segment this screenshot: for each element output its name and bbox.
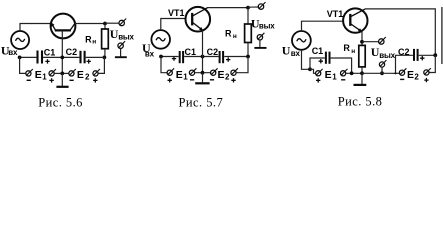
source bottom lead L (circuit 3) [302, 50, 311, 70]
plus of C2 (circuit 2) [226, 57, 230, 61]
source G3 (~) [292, 31, 311, 50]
capacitor C1 (circuit 3) [325, 52, 327, 64]
svg-text:E: E [176, 69, 183, 81]
svg-text:1: 1 [183, 73, 188, 82]
wire top rail (circuit 3) [365, 9, 435, 55]
ground bar (circuit 2) [195, 82, 209, 84]
junction dot rail left [18, 56, 22, 60]
battery terminal E2 left (circuit 2) [211, 70, 216, 75]
ground lead (circuit 3) [361, 73, 363, 84]
bottom rail segment b [43, 56, 79, 58]
svg-text:C1: C1 [312, 46, 324, 56]
bottom rail segment c (circuit 2) [224, 56, 248, 58]
battery terminal E1 left (circuit 2) [167, 70, 172, 75]
junction dot terminal row (circuit 3) [380, 71, 384, 75]
wire E1 to mid [54, 72, 68, 74]
junction dot top rail (circuit 2) [246, 6, 250, 10]
minus under E1 right (circuit 3) [341, 79, 345, 81]
svg-text:E: E [77, 69, 84, 81]
junction dot rail mid [60, 56, 64, 60]
terminal bottom lead and bar (circuit 2) [259, 40, 261, 47]
wire E2 to riser (circuit 2) [236, 57, 248, 73]
svg-text:R: R [85, 34, 92, 44]
resistor Rн lead bottom (circuit 2) [247, 43, 249, 57]
minus under E2 left (circuit 3) [400, 78, 404, 80]
svg-text:C2: C2 [207, 47, 219, 57]
wire source top to rail [19, 24, 21, 32]
svg-text:R: R [343, 43, 350, 53]
VT1 collector diagonal [193, 8, 208, 16]
plus of C1 (circuit 2) [172, 56, 176, 60]
battery terminal E2 left (circuit 1) [69, 71, 74, 76]
E branch left L-wire [20, 57, 26, 73]
right riser down to E2 (circuit 3) [429, 55, 435, 72]
wire E1 to mid (circuit 2) [195, 72, 211, 74]
svg-text:VT1: VT1 [168, 8, 185, 18]
svg-text:Рис. 5.6: Рис. 5.6 [38, 95, 83, 109]
battery terminal E1 right (circuit 3) [341, 71, 346, 76]
VT1 emitter lead down (circuit 3) [361, 32, 363, 46]
terminal output bottom (circuit 3) [379, 62, 384, 67]
minus under E1 right (circuit 2) [190, 79, 194, 81]
page edge artifact line right [441, 7, 443, 64]
bottom rail segment a (circuit 2) [161, 56, 179, 58]
svg-text:2: 2 [85, 73, 90, 82]
T1 base bar [55, 29, 71, 31]
wire source top lead [161, 19, 186, 31]
svg-text:вых: вых [118, 32, 134, 41]
svg-text:U: U [282, 44, 291, 58]
T1 collector diagonal [70, 23, 75, 30]
transistor VT1 circle (circuit 2) [186, 7, 211, 32]
svg-text:2: 2 [225, 73, 230, 82]
plus under E2 right (circuit 2) [231, 78, 235, 82]
resistor Rн lead bottom [104, 49, 106, 58]
svg-text:VT1: VT1 [327, 9, 344, 19]
resistor Rн (circuit 1) [102, 29, 109, 49]
junction dot emitter (circuit 3) [360, 40, 364, 44]
resistor Rн (circuit 2) [245, 24, 252, 43]
wire top rail right [75, 23, 105, 25]
battery terminal E2 right (circuit 2) [231, 70, 236, 75]
svg-text:н: н [351, 48, 355, 55]
junction dot rail mid (circuit 2) [201, 55, 205, 59]
C1 wire right and down (circuit 3) [331, 58, 352, 73]
VT1 base bar (circuit 3) [349, 14, 351, 26]
junction dot top rail [103, 22, 107, 26]
svg-text:C2: C2 [398, 47, 410, 57]
plus under E1 right [49, 78, 53, 82]
C2 riser (circuit 3) [396, 55, 413, 73]
svg-text:вых: вых [379, 51, 395, 60]
ground lead (circuit 2) [202, 73, 204, 83]
resistor Rн lead bottom (circuit 3) [361, 67, 363, 73]
junction dot E-row mid (circuit 2) [201, 71, 205, 75]
VT1 emitter lead down [202, 30, 204, 72]
bottom rail segment a [20, 56, 37, 58]
wire to output terminal top [105, 22, 119, 24]
junction dot Rн bottom (circuit 3) [360, 71, 364, 75]
terminal bottom lead and bar [120, 48, 122, 56]
plus under E1 left (circuit 3) [316, 78, 320, 82]
capacitor C1 (circuit 2) [179, 51, 181, 63]
svg-text:R: R [225, 29, 232, 39]
battery terminal E2 right (circuit 3) [424, 70, 429, 75]
transistor VT1 circle (circuit 3) [343, 8, 367, 32]
plus of C1 (circuit 3) [319, 59, 323, 63]
capacitor C1 (circuit 1) [36, 51, 38, 64]
wire to output terminal top (circuit 3) [362, 41, 379, 43]
svg-text:E: E [407, 69, 414, 81]
wire E1 to mid (circuit 3) [346, 72, 362, 74]
wire mid to terminal dot (circuit 3) [362, 72, 399, 74]
svg-text:Рис. 5.8: Рис. 5.8 [338, 95, 383, 109]
svg-text:н: н [92, 38, 96, 45]
capacitor C2 (circuit 3) [413, 49, 415, 61]
svg-text:вых: вых [259, 22, 275, 31]
ground lead [61, 73, 63, 86]
terminal output bottom (circuit 2) [257, 35, 262, 40]
terminal output bottom (circuit 1) [118, 43, 123, 48]
battery terminal E1 right (circuit 1) [49, 71, 54, 76]
bottom rail segment c [86, 56, 105, 58]
svg-text:C1: C1 [185, 47, 197, 57]
svg-text:E: E [218, 69, 225, 81]
VT1 emitter diagonal with arrow (circuit 3) [351, 24, 362, 32]
battery terminal E1 left (circuit 3) [316, 71, 321, 76]
C2 wire right (circuit 3) [419, 54, 436, 56]
svg-text:Рис. 5.7: Рис. 5.7 [179, 95, 224, 109]
junction dot rail left (circuit 2) [159, 55, 163, 59]
capacitor C2 (circuit 1) [79, 51, 81, 64]
minus under E1 left [27, 79, 31, 81]
wire source top lead (circuit 3) [302, 21, 344, 31]
T1 base lead down through rail to E-row [61, 30, 63, 73]
plus under E2 right (circuit 3) [424, 78, 428, 82]
C1 riser (circuit 3) [310, 58, 325, 69]
wire dot to E1 (circuit 3) [310, 69, 316, 73]
svg-text:2: 2 [414, 73, 419, 82]
plus of C1 [45, 59, 49, 63]
plus of C2 [87, 59, 91, 63]
VT1 collector diagonal (circuit 3) [351, 9, 365, 17]
junction dot C1 node (circuit 3) [350, 71, 354, 75]
wire top rail left [20, 23, 52, 25]
terminal output top (circuit 2) [258, 4, 263, 9]
svg-text:1: 1 [332, 73, 337, 82]
bottom rail segment b (circuit 2) [184, 56, 218, 58]
terminal output top (circuit 1) [119, 20, 124, 25]
minus under E2 left (circuit 2) [210, 79, 214, 81]
resistor Rн (circuit 3) [359, 45, 365, 67]
plus under E2 right [93, 78, 97, 82]
capacitor C2 (circuit 2) [219, 51, 221, 63]
source G2 (~) [151, 30, 170, 49]
T1 emitter diagonal with arrow [51, 23, 55, 30]
junction dot rail right (circuit 2) [246, 55, 250, 59]
svg-text:C1: C1 [44, 47, 56, 57]
svg-text:вх: вх [8, 48, 18, 57]
E branch left L-wire (circuit 2) [161, 57, 167, 73]
junction dot top right (circuit 3) [433, 53, 437, 57]
transistor T1 circle [51, 14, 76, 39]
minus under E2 left [70, 79, 74, 81]
svg-text:вх: вх [291, 49, 301, 58]
terminal output top (circuit 3) [379, 39, 384, 44]
terminal bottom lead (circuit 3) [381, 67, 383, 73]
battery terminal E1 left (circuit 1) [26, 71, 31, 76]
plus under E1 left (circuit 2) [168, 78, 172, 82]
wire top rail (collector to corner) [208, 7, 249, 9]
junction dot E-row mid [60, 72, 64, 76]
VT1 base bar [191, 13, 193, 26]
svg-text:C2: C2 [66, 47, 78, 57]
ground bar (circuit 3) [354, 84, 367, 86]
junction dot source node (circuit 3) [308, 67, 312, 71]
ground bar [56, 86, 68, 88]
svg-text:вх: вх [145, 49, 155, 58]
junction dot E-row right [103, 72, 105, 74]
source G1 (~) [11, 31, 29, 49]
wire E2 to riser [98, 57, 104, 73]
resistor Rн lead top (circuit 2) [247, 8, 249, 24]
svg-text:1: 1 [42, 73, 47, 82]
junction dot rail right [103, 56, 107, 60]
svg-text:н: н [233, 33, 237, 40]
battery terminal E2 right (circuit 1) [93, 71, 98, 76]
wire to output terminal top (circuit 2) [248, 6, 258, 8]
battery terminal E1 right (circuit 2) [189, 70, 194, 75]
VT1 emitter diagonal with arrow [193, 23, 203, 31]
resistor Rн lead top [104, 24, 106, 30]
plus of C2 (circuit 3) [420, 56, 424, 60]
battery terminal E2 left (circuit 3) [399, 70, 404, 75]
svg-text:E: E [325, 69, 332, 81]
junction C2 riser corner (circuit 3) [394, 72, 396, 74]
svg-text:E: E [35, 69, 42, 81]
